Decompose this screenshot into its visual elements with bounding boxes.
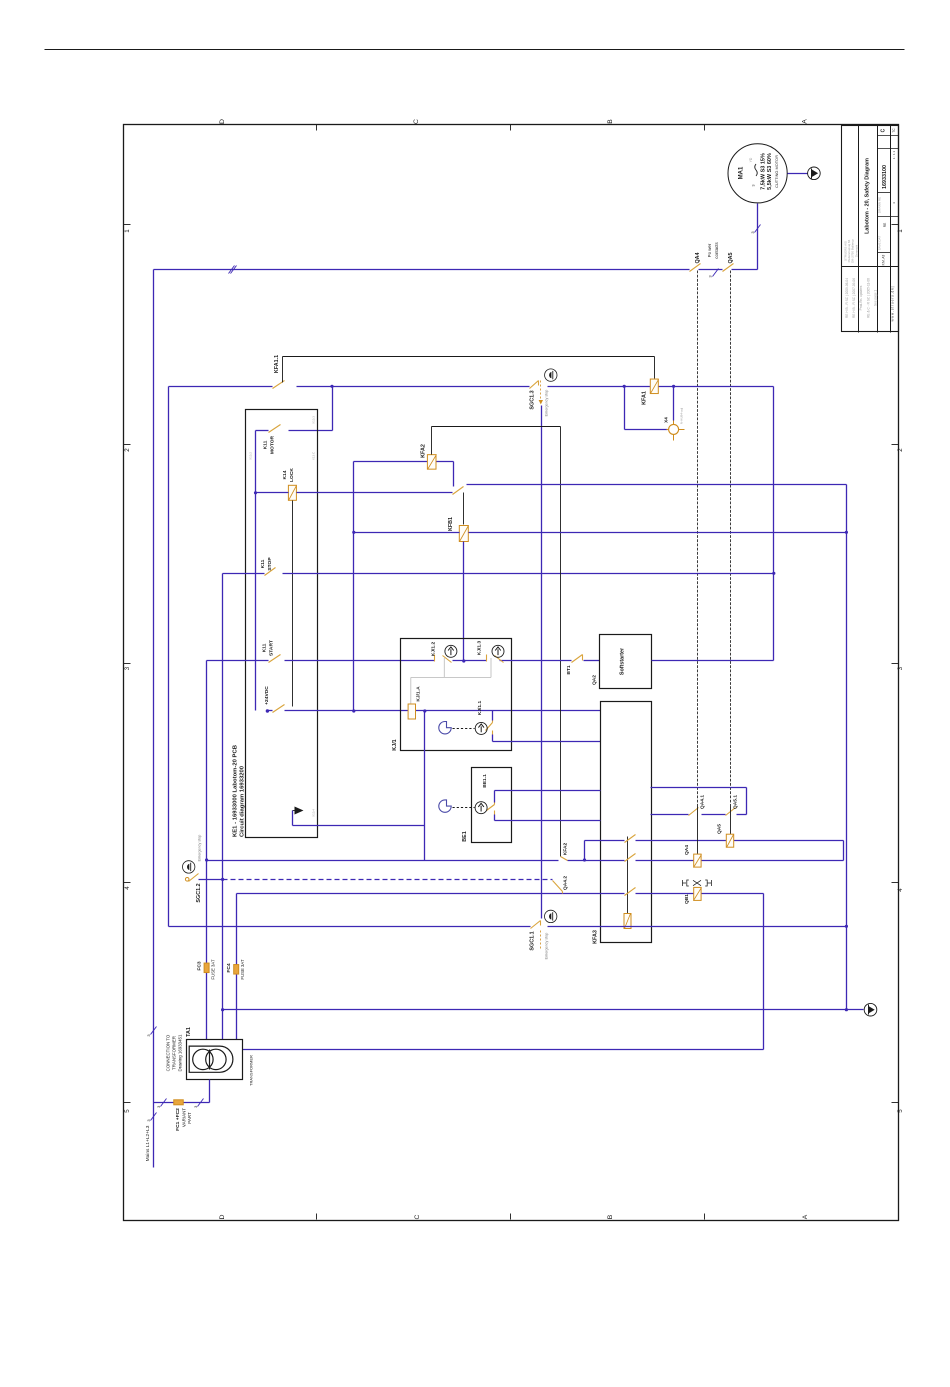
breaker contact QA4 on rail: [690, 264, 701, 272]
PE earth symbol right of motor: [808, 167, 821, 180]
wire QA4.1 link down: [697, 807, 699, 855]
svg-text:KJ/1.A: KJ/1.A: [416, 686, 422, 702]
svg-text:KFA1: KFA1: [642, 391, 648, 405]
svg-text:1: 1: [124, 229, 131, 233]
svg-text:2: 2: [897, 448, 904, 452]
svg-text:K11: K11: [262, 643, 268, 652]
breaker contact QA5 on rail: [723, 264, 734, 272]
emergency stop device symbol SGC1.1: [545, 910, 557, 922]
wire vertical x774: [773, 387, 775, 661]
svg-text:F.M. A3: F.M. A3: [882, 254, 886, 265]
wire QA5.1 link down: [730, 807, 732, 835]
svg-text:C: C: [881, 128, 887, 132]
wire rung 825: [293, 825, 425, 827]
wire TA1 bottom primary: [209, 1080, 211, 1103]
svg-text:START: START: [269, 640, 275, 656]
contact SGC1.2 emergency stop: [185, 878, 189, 882]
wire branch 840: [583, 858, 586, 861]
box TA1 outline: [187, 1040, 243, 1080]
wire rung 893 long: [237, 893, 625, 895]
three-phase slash on motor drop: [755, 225, 761, 233]
timer symbol BE1: [439, 800, 451, 812]
svg-text:5: 5: [124, 1109, 131, 1113]
svg-text:Circuit diagram 16933200: Circuit diagram 16933200: [240, 765, 246, 837]
coil K14 LOCK: [288, 485, 296, 500]
svg-text:1 : 1 1: 1 : 1 1: [892, 151, 896, 160]
svg-text:B: B: [607, 1214, 614, 1219]
svg-text:KFA2: KFA2: [421, 444, 427, 458]
drawing frame border: [124, 125, 899, 1221]
transformer core stadium: [189, 1046, 233, 1072]
actuated contact circle BE1.1: [475, 802, 487, 814]
wire motor drop from rail: [757, 204, 759, 270]
svg-text:VARIANT: VARIANT: [182, 1108, 187, 1127]
svg-text:FC1 +FC2: FC1 +FC2: [175, 1108, 181, 1131]
svg-text:TC: TC: [892, 128, 896, 133]
svg-text:SGC1.3: SGC1.3: [530, 390, 536, 409]
svg-text:DRAWN RE: DRAWN RE: [878, 197, 882, 213]
box KFA3 outline: [601, 702, 652, 943]
wire corner 893 down to 1049: [763, 894, 765, 1050]
svg-text:KJ/1.2: KJ/1.2: [431, 642, 437, 657]
svg-text:N-HUB4-adj: N-HUB4-adj: [680, 408, 684, 425]
wire QA4 phase line down: [697, 271, 699, 807]
wire KFA1.1 riser to coil wire: [282, 357, 284, 383]
title block outer box: [842, 126, 899, 332]
svg-text:Emergency stop: Emergency stop: [545, 933, 549, 960]
svg-text:MA1: MA1: [739, 166, 745, 179]
svg-text:Prod.Rn. updates: Prod.Rn. updates: [859, 285, 863, 310]
timer symbol KJ/1: [439, 722, 451, 734]
mech link gray KJ/1: [443, 658, 445, 677]
mech dash link KJ/1.1: [453, 728, 475, 730]
svg-text:QA2: QA2: [592, 675, 598, 685]
signal arrow from KE1: [295, 807, 304, 815]
contact QA5.1: [726, 808, 736, 816]
box BE1 outline: [472, 768, 512, 843]
wire rung 860 long: [207, 860, 559, 862]
wire bus3 +24V vertical: [255, 431, 257, 711]
wire rung KFA1.1 / SGC1.3: [169, 386, 273, 388]
svg-text:LOCK: LOCK: [289, 468, 295, 482]
contact QA4.2: [553, 881, 563, 892]
wire rung K14: [256, 492, 289, 494]
svg-text:4: 4: [124, 886, 131, 890]
PE earth symbol bottom right: [864, 1003, 877, 1016]
wire rung 661 left part: [207, 660, 269, 662]
contact K11 MOTOR: [269, 425, 281, 433]
wire corner x746 down: [746, 788, 748, 815]
wire SGC1.2 to bus: [199, 879, 223, 881]
svg-text:Drawing 16933451: Drawing 16933451: [177, 1034, 182, 1071]
wire rung 820 to KFA3 box: [495, 820, 601, 822]
wire QA5 phase line down: [730, 271, 732, 807]
wire vertical x425: [424, 711, 426, 861]
dashed variant rung 879: [223, 879, 553, 881]
svg-text:Mains L1+L2+L3: Mains L1+L2+L3: [145, 1125, 151, 1161]
svg-text:BT1: BT1: [566, 665, 572, 675]
svg-text:KJ/1.3: KJ/1.3: [477, 641, 483, 656]
svg-text:X13:2: X13:2: [249, 452, 253, 460]
overload symbol above QB1: [683, 880, 712, 886]
transformer winding circle right: [206, 1049, 226, 1069]
contact K11 STOP on rung 573: [223, 573, 265, 575]
wire stub bus3 to K11 MOTOR contact: [256, 430, 269, 432]
svg-text:C: C: [414, 1214, 421, 1219]
wire X4 branch from rung386: [624, 387, 626, 430]
transformer centre tap line: [209, 1050, 211, 1070]
wire fuse branch FC3: [206, 861, 208, 1040]
svg-text:QB1: QB1: [684, 894, 690, 904]
actuated contact circle KJ/1.3: [492, 645, 504, 657]
svg-text:5,5kW S3 60%: 5,5kW S3 60%: [767, 153, 773, 190]
wire BE1 riser top: [494, 791, 496, 803]
wire KFB1 down to rung 661: [463, 542, 465, 661]
wire SGC1.3 pole down: [541, 406, 543, 919]
connector X4: [669, 424, 679, 434]
frame zone ticks top edge: [316, 125, 318, 131]
three-phase slash on bus L1 upper: [151, 1027, 157, 1035]
wire KFA3 internal link: [627, 837, 629, 914]
svg-text:FUSE 3AT: FUSE 3AT: [240, 959, 245, 980]
svg-text:4: 4: [897, 888, 904, 892]
wire rung 787 from KFA3 box: [651, 787, 747, 789]
mechanical dashes SGC1.3: [540, 381, 542, 399]
svg-text:X13:C: X13:C: [312, 451, 316, 460]
frame zone ticks right edge: [892, 224, 899, 226]
wire bus x354 vertical: [353, 462, 355, 711]
svg-text:KFB1: KFB1: [448, 517, 454, 531]
motor MA1 circle: [728, 144, 787, 203]
svg-text:KFA1.1: KFA1.1: [274, 355, 280, 373]
coil KFA3: [624, 914, 631, 929]
contact SGC1.3 emergency stop: [530, 381, 539, 389]
box KE1 PCB outline: [246, 410, 318, 838]
wire rung 741 to KFA3 box: [493, 741, 601, 743]
contact QA4.1: [689, 808, 699, 816]
wire arrow riser: [292, 811, 294, 826]
contact KJ/1.2: [434, 655, 436, 662]
wire rung KFA2: [354, 461, 428, 463]
contact KJ/1.3: [486, 655, 488, 662]
svg-text:16933100: 16933100: [882, 165, 888, 189]
svg-text:TA1: TA1: [186, 1027, 192, 1037]
contact KFA1.1: [273, 381, 285, 389]
contact KFA3 internal 860: [625, 854, 636, 862]
frame zone ticks bottom edge: [316, 1214, 318, 1220]
svg-text:KFA2: KFA2: [563, 842, 569, 855]
coil KFA2: [427, 455, 436, 470]
svg-text:PART: PART: [187, 1112, 192, 1124]
svg-text:D: D: [219, 1214, 226, 1219]
wire rung 661 through KJ1: [453, 660, 487, 662]
svg-text:QA5: QA5: [717, 824, 723, 834]
svg-text:CONNECTION TO: CONNECTION TO: [166, 1034, 171, 1071]
contact +24VDC output: [266, 709, 269, 712]
svg-text:X4: X4: [664, 417, 669, 423]
wire rung 814 from KFA3 box: [651, 814, 689, 816]
svg-text:Po wer: Po wer: [707, 243, 712, 257]
contact KFA3 internal 893: [625, 888, 636, 896]
contact KFA3 internal 840: [625, 835, 636, 843]
contact KJ/1.1: [492, 721, 494, 723]
svg-text:YD: YD: [749, 157, 753, 162]
fuse FC4: [234, 965, 239, 975]
three-phase slash between QA4 and QA5: [713, 269, 719, 277]
wire KFB1 link vertical: [463, 493, 465, 525]
svg-text:+24VDC: +24VDC: [264, 686, 270, 705]
contact KFA2 NO at rung 860: [561, 857, 568, 861]
three-phase slash on bus L1 lower: [151, 1113, 157, 1121]
svg-text:KJ/1.1: KJ/1.1: [477, 701, 483, 716]
svg-text:RE: RE: [883, 223, 887, 227]
svg-text:D: D: [219, 119, 226, 124]
wire KJ/1.1 down to rung 741: [492, 735, 494, 742]
svg-text:SGC1.1: SGC1.1: [530, 931, 536, 950]
svg-text:KE1 - 16933000 Labotom-20 PCB: KE1 - 16933000 Labotom-20 PCB: [233, 745, 239, 837]
svg-text:Emergency stop: Emergency stop: [545, 390, 549, 417]
svg-text:3: 3: [897, 666, 904, 670]
fuse FC1+FC2: [174, 1100, 184, 1105]
wire TA1 secondary right: [242, 1049, 244, 1051]
wire softstarter output to x774: [652, 660, 774, 662]
wire rung 926 SGC1.1: [169, 926, 531, 928]
breaker QA5: [726, 834, 733, 847]
svg-text:See page 1: See page 1: [874, 290, 878, 307]
svg-text:QA5: QA5: [728, 252, 734, 263]
svg-text:X13:4: X13:4: [312, 809, 316, 817]
svg-text:contacts: contacts: [714, 242, 719, 259]
svg-text:KFA3: KFA3: [593, 930, 599, 944]
three-phase slash on primary left: [161, 1099, 167, 1107]
wire corner rung386 down to K11 contact wire: [332, 387, 334, 431]
wire rung KFB1 532: [354, 532, 460, 534]
svg-text:X13:3: X13:3: [312, 416, 316, 424]
coil KFA1: [650, 379, 658, 394]
contact BE1.1: [494, 803, 496, 805]
svg-text:QA4: QA4: [695, 252, 701, 263]
actuated contact circle KJ/1.2: [445, 645, 457, 657]
svg-text:Denmark: Denmark: [854, 244, 858, 257]
title block vertical dividers: [858, 126, 860, 333]
wire KJ/1.1 riser: [492, 711, 494, 721]
wire top three-phase rail: [154, 269, 690, 271]
wire rung 791 to KFA3 box: [495, 790, 601, 792]
svg-text:Labotom - 20, Safety Diagram: Labotom - 20, Safety Diagram: [865, 158, 871, 234]
wire fuse branch FC4: [236, 894, 238, 1040]
contact BT1: [572, 655, 583, 663]
svg-text:CUTTING MOTOR: CUTTING MOTOR: [774, 155, 779, 188]
box Softstarter: [600, 635, 652, 689]
three-phase slash on primary right: [198, 1099, 204, 1107]
emergency stop device symbol SGC1.2: [183, 861, 195, 873]
svg-text:RE H B - R SC | 2009-06-04: RE H B - R SC | 2009-06-04: [845, 278, 849, 318]
svg-text:B: B: [607, 119, 614, 124]
svg-text:RE H B - R SC | 2007-09-06: RE H B - R SC | 2007-09-06: [852, 278, 856, 318]
svg-text:KJ/1: KJ/1: [392, 739, 398, 750]
mechanical dashes SGC1.1: [540, 931, 542, 949]
svg-text:TRANSFORMER: TRANSFORMER: [171, 1036, 176, 1070]
svg-text:SGC1.2: SGC1.2: [196, 883, 202, 902]
wire KFA2 coil top black: [431, 427, 433, 455]
svg-text:K14: K14: [282, 470, 288, 479]
svg-text:QA4.2: QA4.2: [563, 876, 569, 890]
contact SGC1.1: [531, 921, 541, 929]
svg-text:5: 5: [897, 1109, 904, 1113]
three-phase slash on rail at bus corner: [229, 266, 235, 274]
svg-text:7,5kW S3 15%: 7,5kW S3 15%: [761, 153, 767, 190]
wire K14 coil bottom line down to +24 contact: [292, 501, 294, 707]
title block horizontal dividers: [842, 266, 899, 268]
breaker QB1: [694, 887, 701, 900]
wire rung 485 to far corner: [467, 484, 847, 486]
wire bus down from rung573 to transformer: [222, 574, 224, 1040]
svg-text:BE1: BE1: [462, 831, 468, 842]
box KJ/1 outline: [401, 639, 512, 751]
coil KFB1: [459, 526, 468, 542]
frame zone ticks left edge: [124, 224, 131, 226]
wire KFA2 coil right down: [437, 461, 454, 463]
svg-text:QA4: QA4: [684, 845, 690, 855]
wire rung 1049 from transformer: [243, 1049, 764, 1051]
svg-text:TRANSFORMER: TRANSFORMER: [249, 1055, 254, 1086]
svg-text:QA5.1: QA5.1: [733, 795, 739, 809]
page header rule: [45, 49, 905, 51]
wire BE1 riser bottom: [494, 815, 496, 821]
actuated contact circle KJ/1.1: [475, 722, 487, 734]
wire rung 1009 to PE: [223, 1009, 864, 1011]
transformer winding circle left: [193, 1049, 213, 1069]
svg-text:FC4: FC4: [226, 963, 232, 973]
emergency stop device symbol SGC1.3: [545, 369, 557, 381]
svg-text:Softstarter: Softstarter: [620, 647, 626, 675]
contact K11 START on rung 661: [269, 655, 281, 663]
svg-text:BE1.1: BE1.1: [482, 774, 488, 788]
wire bus L1 left vertical: [153, 270, 155, 1168]
wire corner 661 down: [206, 661, 208, 861]
wire X4 top riser from rung386: [673, 387, 675, 421]
svg-text:SAVE DAT: SAVE DAT: [878, 236, 882, 251]
svg-text:QA4.1: QA4.1: [700, 795, 706, 809]
svg-text:A: A: [802, 1214, 809, 1219]
breaker QA4: [694, 854, 701, 867]
svg-text:MOTOR: MOTOR: [270, 435, 276, 454]
svg-text:FUSE 3AT: FUSE 3AT: [211, 959, 216, 980]
svg-text:w w w . s t r u e r s . d k |: w w w . s t r u e r s . d k |: [891, 286, 895, 321]
svg-text:C: C: [413, 119, 420, 124]
fuse FC3: [204, 963, 209, 973]
wire bus 2 vertical from KFA1.1 rung: [168, 387, 170, 927]
mech dash link BE1.1: [453, 807, 475, 809]
svg-text:K11: K11: [260, 559, 266, 568]
svg-text:FC3: FC3: [197, 961, 203, 971]
coil KJ/1.A: [408, 704, 415, 719]
wire motor to PE: [788, 173, 808, 175]
svg-text:STOP: STOP: [267, 557, 273, 571]
svg-text:K11: K11: [263, 440, 269, 449]
svg-text:3: 3: [752, 185, 756, 187]
svg-text:RE & C - R SC | 2005-11-08: RE & C - R SC | 2005-11-08: [867, 278, 871, 318]
svg-text:A: A: [802, 119, 809, 124]
wire rung 711 to KFA3 box: [285, 710, 601, 712]
svg-text:3: 3: [124, 666, 131, 670]
wire long vertical x846 down: [846, 485, 848, 1010]
svg-text:Emergency stop: Emergency stop: [198, 835, 202, 862]
contact to rung 485: [453, 487, 464, 495]
svg-text:2: 2: [124, 448, 131, 452]
